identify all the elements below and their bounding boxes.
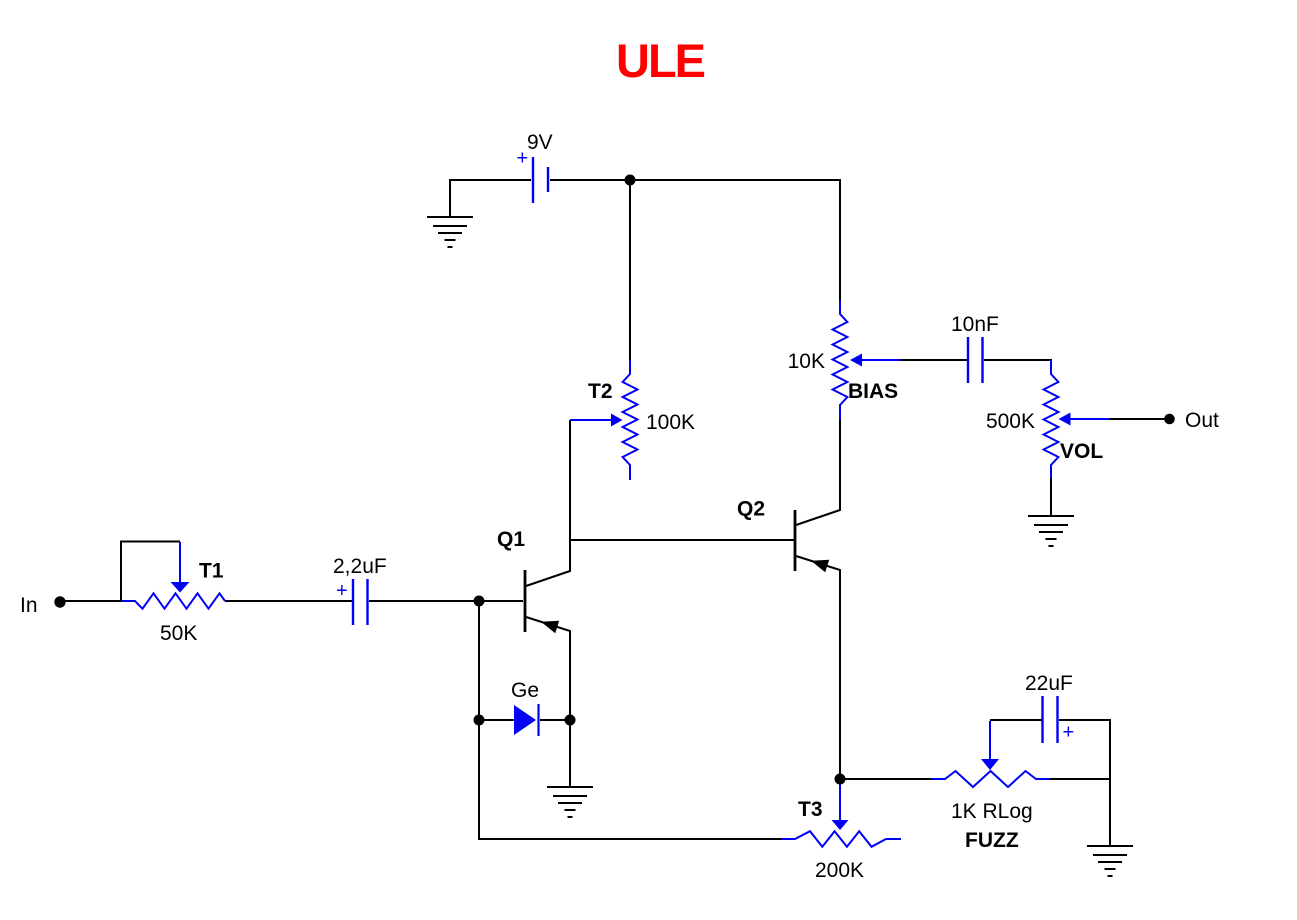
wire In to T1 <box>60 600 121 602</box>
wire node to diode <box>479 719 514 721</box>
svg-text:BIAS: BIAS <box>848 380 898 403</box>
wire fuzz node to 1K <box>840 778 931 780</box>
transistor Q1 <box>497 528 570 720</box>
svg-text:T3: T3 <box>798 798 823 821</box>
potentiometer T3 200K <box>781 784 901 882</box>
capacitor 10nF <box>951 313 999 383</box>
svg-text:Ge: Ge <box>511 679 539 702</box>
wire diode to emitter node <box>540 719 570 721</box>
ground (battery) <box>427 217 473 247</box>
capacitor 2,2uF <box>333 555 387 625</box>
svg-text:T1: T1 <box>199 560 224 583</box>
battery 9V <box>517 131 553 203</box>
node Q2 emitter / fuzz <box>835 774 846 785</box>
node In <box>54 596 65 607</box>
ground (fuzz) <box>1087 846 1133 876</box>
wire 500K bottom to ground <box>1050 478 1052 516</box>
wire battery to supply node <box>550 179 630 181</box>
wire emitter node to ground <box>569 720 571 787</box>
svg-text:100K: 100K <box>646 411 695 434</box>
wire supply node down to T2 <box>629 180 631 360</box>
svg-text:FUZZ: FUZZ <box>965 829 1019 852</box>
svg-text:VOL: VOL <box>1060 440 1103 463</box>
wire supply node to 10K <box>630 180 840 300</box>
svg-text:Out: Out <box>1185 409 1219 432</box>
diode Ge <box>511 679 539 736</box>
wire T1 to 2,2uF <box>225 600 352 602</box>
wire base node to Q1 <box>479 600 523 602</box>
svg-text:500K: 500K <box>986 410 1035 433</box>
potentiometer T2 100K <box>570 360 695 480</box>
ground (diode) <box>547 787 593 817</box>
svg-text:10nF: 10nF <box>951 313 999 336</box>
svg-text:T2: T2 <box>588 380 613 403</box>
node diode anode <box>474 715 485 726</box>
svg-text:22uF: 22uF <box>1025 672 1073 695</box>
wire T2 wiper to Q1 collector net <box>569 420 571 540</box>
svg-text:200K: 200K <box>815 859 864 882</box>
potentiometer 10K BIAS <box>788 300 901 420</box>
potentiometer T1 50K <box>121 542 225 646</box>
svg-text:+: + <box>336 580 348 602</box>
wire 10nF to 500K top <box>984 360 1051 361</box>
wire 2,2uF to Q1 base node <box>369 600 479 602</box>
wire base node branch down to T3 <box>479 720 781 839</box>
svg-text:10K: 10K <box>788 350 825 373</box>
wire Q1 collector to Q2 base <box>570 539 794 541</box>
svg-text:Q2: Q2 <box>737 498 765 521</box>
svg-text:1K RLog: 1K RLog <box>951 800 1033 823</box>
svg-text:2,2uF: 2,2uF <box>333 555 387 578</box>
transistor Q2 <box>737 420 840 779</box>
wire 1K right to ground rail <box>1050 778 1110 780</box>
svg-text:+: + <box>1063 722 1075 744</box>
node supply junction <box>625 175 636 186</box>
svg-text:+: + <box>517 148 529 170</box>
wire battery left to ground <box>450 180 531 217</box>
svg-text:ULE: ULE <box>616 34 705 87</box>
ground (VOL) <box>1028 516 1074 546</box>
potentiometer 500K VOL <box>986 360 1110 478</box>
potentiometer 1K RLog FUZZ <box>931 721 1050 852</box>
svg-text:In: In <box>20 594 38 617</box>
capacitor 22uF <box>1025 672 1074 744</box>
svg-text:Q1: Q1 <box>497 528 525 551</box>
node Q1 base <box>474 596 485 607</box>
node diode cathode / Q1 emitter <box>565 715 576 726</box>
wire 1K wiper to 22uF <box>990 719 1042 721</box>
wire VOL wiper to Out <box>1110 418 1168 420</box>
wire BIAS wiper to 10nF <box>901 359 967 361</box>
wire 22uF to ground rail <box>1059 720 1110 846</box>
node Out <box>1164 414 1175 425</box>
wire base node down to diode <box>478 601 480 720</box>
svg-text:9V: 9V <box>527 131 553 154</box>
svg-text:50K: 50K <box>160 622 197 645</box>
